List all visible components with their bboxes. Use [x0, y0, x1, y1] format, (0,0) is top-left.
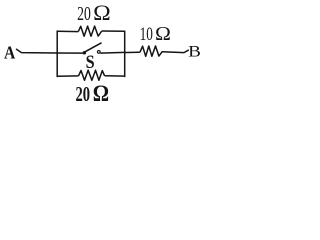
- label 20 ohm (top): [77, 1, 111, 25]
- svg-text:20: 20: [76, 82, 91, 106]
- svg-text:10: 10: [140, 24, 153, 45]
- wire middle branch right: [100, 51, 124, 54]
- wire top branch right stub: [102, 30, 125, 32]
- wire middle branch left (to switch): [57, 52, 83, 54]
- svg-text:Ω: Ω: [93, 81, 109, 106]
- resistor R-top 20 ohm zigzag: [78, 26, 102, 36]
- wire top branch left stub: [57, 30, 78, 32]
- svg-text:Ω: Ω: [155, 24, 171, 45]
- wire A to box (with start tick): [17, 49, 58, 53]
- wire right vertical of parallel box: [124, 31, 126, 76]
- switch S left contact dot: [83, 51, 87, 55]
- svg-text:A: A: [4, 42, 16, 62]
- resistor R-bottom 20 ohm zigzag: [79, 70, 105, 80]
- switch S blade (open): [86, 43, 101, 51]
- resistor 10 ohm zigzag: [140, 46, 162, 56]
- wire box to 10 ohm resistor: [125, 51, 140, 53]
- svg-text:Ω: Ω: [93, 1, 111, 25]
- wire bottom branch right stub: [105, 75, 125, 77]
- wire left vertical of parallel box: [56, 31, 58, 76]
- switch S right contact circle: [97, 51, 100, 54]
- wire bottom branch left stub: [57, 75, 78, 77]
- svg-text:B: B: [188, 44, 201, 61]
- label 10 ohm: [140, 24, 171, 45]
- wire 10 ohm to B (with end tick): [162, 50, 188, 52]
- label 20 ohm (bottom): [76, 81, 110, 106]
- svg-text:S: S: [86, 52, 95, 73]
- svg-text:20: 20: [77, 3, 91, 25]
